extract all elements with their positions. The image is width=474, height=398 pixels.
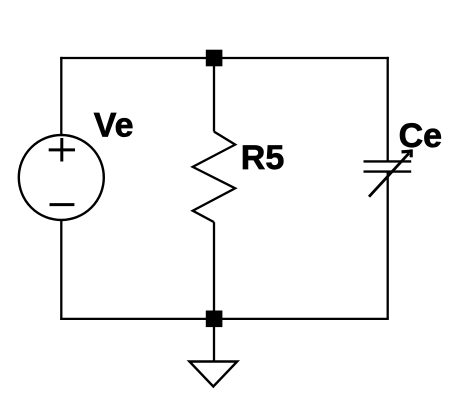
wire left vertical upper xyxy=(60,57,62,136)
capacitor variable arrow head xyxy=(402,149,413,157)
wire right vertical upper xyxy=(387,57,389,161)
wire right vertical lower xyxy=(387,172,389,319)
junction node top xyxy=(206,50,223,67)
voltage source plus sign xyxy=(49,138,75,162)
junction node bottom xyxy=(206,311,223,328)
resistor R5 zigzag xyxy=(193,132,236,223)
svg-text:R5: R5 xyxy=(241,139,284,177)
wire top horizontal xyxy=(60,57,389,59)
wire middle vertical upper xyxy=(213,58,215,132)
capacitor Ce bottom plate xyxy=(364,170,412,172)
capacitor Ce top plate xyxy=(364,160,412,162)
voltage source Ve circle xyxy=(19,135,104,220)
capacitor variable arrow shaft xyxy=(369,153,409,197)
svg-text:Ce: Ce xyxy=(399,117,442,155)
wire middle vertical lower xyxy=(213,222,215,319)
wire bottom horizontal xyxy=(60,318,389,320)
voltage source minus sign xyxy=(50,203,75,206)
wire ground stem xyxy=(213,327,215,362)
svg-text:Ve: Ve xyxy=(94,107,134,145)
ground symbol xyxy=(189,362,237,387)
wire left vertical lower xyxy=(60,220,62,320)
